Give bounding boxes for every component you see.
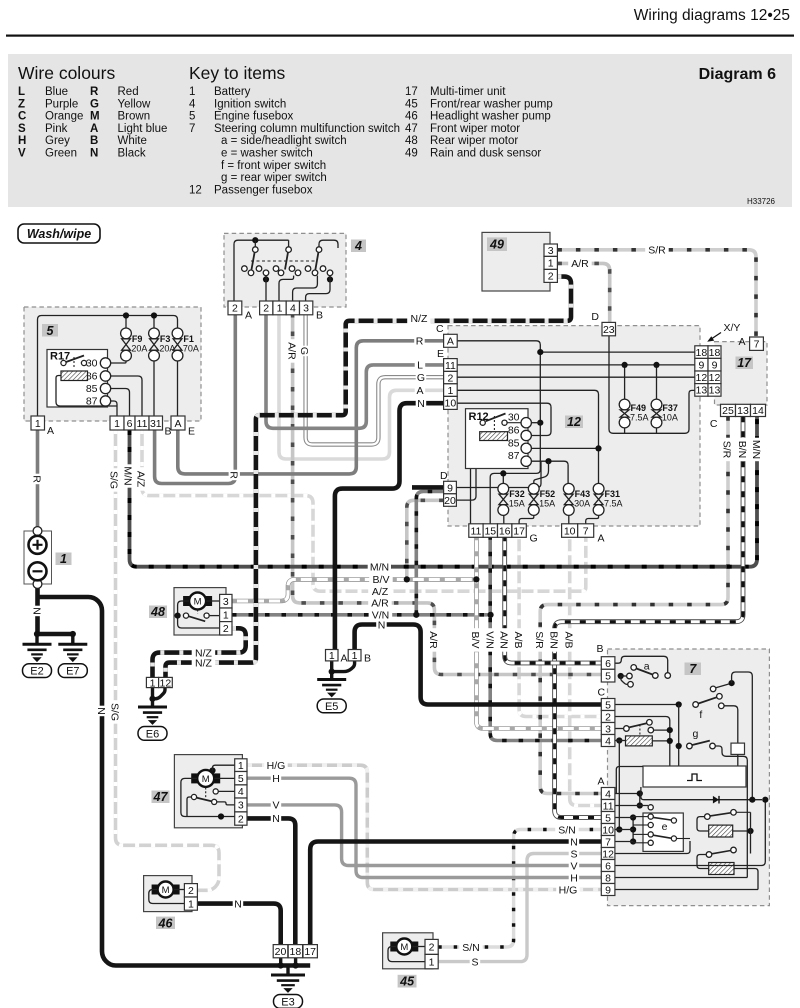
svg-text:Orange: Orange [45, 111, 83, 123]
wire N box18-stub [294, 958, 297, 966]
ground E2 [23, 644, 52, 661]
svg-text:2: 2 [263, 303, 269, 315]
wire 7-smallbox-dn [737, 754, 739, 766]
svg-text:1: 1 [150, 677, 156, 689]
label S/G-2 [110, 700, 121, 724]
wire N/Z 48pin2-to-E6box1 [153, 628, 246, 677]
svg-text:4: 4 [189, 98, 196, 110]
svg-text:N: N [31, 607, 43, 615]
wire A/R ignition4B-to-7B5 [293, 313, 602, 675]
wire 7-a8line [615, 877, 747, 879]
fuse F32 [498, 483, 509, 515]
svg-text:2: 2 [447, 372, 453, 384]
svg-text:A: A [341, 653, 348, 665]
wire N E5A-stem [330, 661, 333, 672]
wire 47-left [181, 778, 235, 816]
wire 12-F32stem [502, 473, 504, 483]
svg-text:B/V: B/V [469, 632, 481, 649]
svg-text:V: V [272, 800, 279, 812]
svg-text:Z: Z [18, 98, 25, 110]
svg-text:4: 4 [354, 239, 362, 253]
svg-text:N: N [90, 148, 98, 160]
wire L ignition2B-to-12pin11 [266, 313, 444, 428]
svg-text:A: A [416, 385, 423, 397]
svg-text:A/R: A/R [427, 631, 439, 649]
svg-text:M: M [202, 774, 210, 785]
svg-text:B/N: B/N [548, 631, 560, 649]
junction jE2 [34, 631, 40, 637]
pin 17-13b [736, 404, 751, 416]
junction j7d [729, 680, 735, 686]
svg-text:E7: E7 [66, 666, 79, 678]
svg-text:10: 10 [564, 525, 576, 537]
svg-text:17: 17 [737, 356, 752, 370]
junction j7g [667, 738, 673, 744]
pin 7-B6 [601, 657, 615, 670]
svg-text:18: 18 [709, 347, 721, 359]
svg-text:E2: E2 [30, 666, 43, 678]
wire 7c3-blade [629, 723, 647, 727]
junction jE3b [293, 962, 299, 968]
pin 17-R18 [708, 346, 721, 359]
svg-text:N: N [272, 813, 280, 825]
wire 7-estub [633, 842, 648, 844]
junction j7i [637, 790, 643, 796]
junction j7e [667, 727, 673, 733]
svg-text:R: R [228, 471, 240, 479]
label N-7 [569, 836, 580, 847]
wire A/R 49pin1-to-23 [557, 263, 609, 322]
svg-text:12: 12 [189, 184, 202, 196]
pin 17-L9 [695, 358, 708, 371]
svg-text:f = front wiper switch: f = front wiper switch [221, 160, 326, 172]
svg-text:N: N [570, 836, 578, 848]
svg-text:7: 7 [189, 123, 195, 135]
svg-text:23: 23 [603, 324, 615, 336]
svg-text:S/R: S/R [533, 631, 545, 649]
wire f9-stub [125, 316, 127, 329]
pin 12-2 [444, 371, 458, 383]
component box battery-body [24, 531, 52, 584]
svg-text:7: 7 [583, 525, 589, 537]
svg-text:6: 6 [127, 418, 133, 430]
resistor 7-res-c4 [626, 736, 653, 746]
wire A/Z fusebox11-to-12A7 [142, 430, 586, 591]
junction j47a [209, 767, 215, 773]
component box rear wiper motor 48 [174, 588, 226, 635]
svg-text:48: 48 [405, 135, 418, 147]
svg-text:8: 8 [605, 872, 611, 884]
wire ign-pivot2 [288, 240, 290, 246]
svg-text:3: 3 [303, 303, 309, 315]
svg-text:S/G: S/G [108, 471, 120, 489]
svg-text:M/N: M/N [370, 562, 389, 574]
svg-text:C: C [598, 687, 606, 699]
pin 47-2 [235, 812, 247, 825]
svg-text:5: 5 [47, 324, 55, 338]
wire 12-coil85 [508, 436, 522, 449]
svg-text:14: 14 [752, 405, 764, 417]
component box 7-pulsebox [643, 766, 746, 787]
pin 12-1 [444, 384, 458, 397]
wire 7f-out [724, 706, 738, 743]
svg-text:2: 2 [548, 271, 554, 283]
svg-text:S/R: S/R [648, 245, 666, 257]
svg-text:a = side/headlight switch: a = side/headlight switch [221, 135, 347, 147]
battery minus [29, 562, 47, 580]
wire 7-res2-r [734, 869, 758, 890]
svg-text:9: 9 [605, 884, 611, 896]
wire 12-F49stem-dn [624, 428, 626, 433]
pin E5-1A [326, 650, 339, 661]
svg-text:A: A [47, 425, 54, 437]
svg-text:E6: E6 [146, 728, 159, 740]
wire ign-c1 [265, 276, 267, 301]
label G-ign [299, 346, 310, 357]
wire 7a-rail [615, 656, 668, 673]
pin 49-3 [544, 244, 557, 256]
svg-text:1: 1 [447, 385, 453, 397]
junction j3 [413, 612, 419, 618]
junction j4b [263, 276, 269, 282]
svg-text:M: M [400, 942, 408, 953]
pin 17-7 [750, 337, 764, 350]
wire B/V 48pin3-trunk [232, 579, 476, 601]
junction j7b [676, 701, 682, 707]
svg-text:47: 47 [153, 790, 169, 804]
label V-47 [271, 799, 282, 810]
svg-text:4: 4 [605, 788, 611, 800]
label E6 [138, 727, 167, 741]
wire 46-left [149, 890, 185, 904]
wire 46-p2 [174, 889, 184, 891]
pin 45-1 [425, 954, 438, 968]
pin E6-1 [146, 677, 158, 687]
pin 12-20 [444, 494, 457, 507]
svg-text:A: A [447, 336, 454, 348]
wire f3-down [153, 361, 155, 416]
pin E3-17 [303, 945, 317, 958]
pin E6-12 [159, 677, 173, 687]
pin 12-11 [444, 359, 458, 372]
svg-text:4: 4 [238, 786, 244, 798]
wire M/N fusebox6-to-17pin14 [130, 416, 758, 567]
pin 46-2 [184, 884, 197, 897]
junction j5b [151, 312, 157, 318]
wire N 12pin10-to-E5A [335, 403, 444, 649]
wire R fusebox-AE-to-12pinA [178, 341, 444, 474]
diode [713, 796, 719, 804]
svg-text:X/Y: X/Y [724, 322, 741, 334]
pin 4-2A [228, 301, 242, 315]
component box rain and dusk sensor 49 [482, 232, 550, 291]
wire 12-F52feed [534, 461, 549, 483]
svg-text:3: 3 [238, 800, 244, 812]
wire 7-c5line [615, 704, 676, 706]
label 17 [736, 357, 754, 370]
wire 45-left [388, 947, 425, 962]
wire A/R 12box20-riser [407, 500, 444, 579]
wire 7-diodeline [641, 787, 762, 800]
svg-text:31: 31 [150, 418, 162, 430]
label 4 [351, 240, 366, 253]
wire f9-to-30 [111, 361, 126, 363]
svg-text:M: M [90, 111, 100, 123]
junction j12d [545, 458, 551, 464]
svg-text:Pink: Pink [45, 123, 68, 135]
pin 7-A6 [601, 860, 615, 872]
svg-text:46: 46 [158, 916, 174, 930]
junction j7p [762, 797, 768, 803]
label A/N-b [499, 628, 510, 652]
svg-text:V/N: V/N [483, 631, 495, 649]
svg-text:7: 7 [689, 662, 697, 676]
svg-text:S/N: S/N [558, 824, 576, 836]
pin 48-3 [220, 594, 232, 608]
svg-text:A: A [245, 310, 252, 322]
svg-text:20: 20 [275, 946, 287, 958]
pin 7-C2 [601, 711, 615, 723]
pin 5-1A [31, 416, 45, 430]
svg-text:3: 3 [548, 245, 554, 257]
svg-text:N/Z: N/Z [411, 313, 429, 325]
pin 47-5 [235, 772, 247, 785]
svg-text:B/V: B/V [373, 574, 390, 586]
wire 12-pin1net [457, 390, 599, 484]
label BV-t [369, 574, 393, 585]
pin E3-18 [288, 945, 302, 958]
label NZ-top [407, 313, 431, 324]
svg-text:12: 12 [709, 372, 721, 384]
junction j7c [676, 743, 682, 749]
junction j7n [747, 828, 753, 834]
wire 7-a4line2 [613, 794, 640, 806]
label AZ-t [368, 586, 392, 597]
svg-text:7.5A: 7.5A [630, 413, 649, 423]
pin 17-25 [721, 404, 736, 416]
wire 7-estub [633, 816, 648, 818]
wire 12-line12 [457, 376, 695, 378]
svg-text:C: C [436, 323, 444, 335]
wire 7-a7line [615, 841, 633, 843]
wire 7-estub [633, 824, 648, 826]
wire A ignition1B-to-12pin1 [279, 313, 444, 459]
label HG-47 [264, 760, 288, 771]
wire 7-res2-blade [712, 851, 731, 854]
pin 7-C3 [601, 723, 615, 735]
junction j7f [616, 737, 622, 743]
svg-text:Key to items: Key to items [189, 63, 286, 83]
pin 17-14 [751, 404, 766, 416]
wire 7-a11line [615, 805, 648, 807]
label MN-t [368, 561, 392, 572]
wire ign-rail2 [319, 240, 338, 249]
label 46 [156, 917, 175, 929]
svg-text:2: 2 [223, 623, 229, 635]
svg-text:f: f [699, 709, 702, 721]
battery plus [29, 536, 47, 554]
svg-text:47: 47 [405, 123, 418, 135]
svg-text:70A: 70A [183, 344, 199, 354]
fuse F43 [563, 483, 574, 515]
wire 7-res1-blade [710, 813, 731, 816]
svg-text:46: 46 [405, 111, 418, 123]
wire ign-p3b [306, 276, 330, 301]
svg-text:e = washer switch: e = washer switch [221, 148, 313, 160]
pin 7-A9 [601, 884, 615, 896]
Wash/wipe badge [18, 224, 100, 243]
pin 17-R13 [708, 384, 721, 397]
label SN-45 [459, 941, 483, 952]
svg-text:H: H [570, 872, 578, 884]
label G-12 [416, 372, 427, 383]
svg-text:L: L [417, 360, 423, 372]
svg-text:6: 6 [605, 860, 611, 872]
wire A/B 12box17-to-7C2 [519, 535, 601, 716]
svg-text:25: 25 [722, 405, 734, 417]
wire 7-res1-l [697, 817, 709, 831]
wire 47-p4 [218, 790, 234, 792]
pin 5-AE [171, 416, 185, 430]
svg-text:5: 5 [189, 111, 195, 123]
wire N E6-stem1 [151, 688, 154, 699]
svg-text:D: D [440, 470, 448, 482]
wire S/R 49pin3-to-17pin7 [557, 250, 756, 338]
wire 7-res1-vert [750, 812, 752, 853]
svg-text:A: A [738, 336, 745, 348]
junction j12b [537, 420, 543, 426]
pin 46-1 [184, 897, 197, 910]
wire 7-a12stub [677, 838, 690, 840]
wire F52-dn [519, 515, 534, 523]
wire f1-down [177, 361, 179, 416]
label L-12 [415, 359, 426, 370]
svg-text:1: 1 [35, 418, 41, 430]
label E2 [23, 664, 52, 678]
svg-text:R: R [90, 86, 99, 98]
svg-text:1: 1 [223, 610, 229, 622]
label R-ign [229, 470, 240, 481]
resistor R12coil [480, 432, 508, 441]
svg-text:H33726: H33726 [747, 197, 776, 206]
svg-text:45: 45 [405, 98, 418, 110]
svg-text:16: 16 [499, 525, 511, 537]
svg-text:85: 85 [86, 383, 98, 395]
svg-text:N: N [95, 707, 107, 715]
wire 7-c4down [618, 741, 620, 830]
svg-text:86: 86 [508, 425, 520, 437]
wire 7f-up [732, 672, 753, 800]
wire 7-c5vert [678, 705, 680, 767]
svg-text:13: 13 [709, 385, 721, 397]
svg-text:Yellow: Yellow [118, 98, 152, 110]
svg-text:5: 5 [605, 699, 611, 711]
svg-text:1: 1 [60, 552, 67, 566]
svg-text:A: A [598, 776, 605, 788]
svg-text:10: 10 [602, 824, 614, 836]
wire S/R 17pin25-to-7A4 [540, 416, 728, 793]
wire A/B 12box10-to-7A11 [570, 535, 602, 805]
motor 46M [152, 885, 159, 895]
junction j12a [537, 349, 543, 355]
pin 12-a7 [578, 524, 594, 538]
svg-text:17: 17 [304, 946, 316, 958]
svg-text:1: 1 [114, 418, 120, 430]
svg-text:B/N: B/N [736, 441, 748, 459]
svg-text:Diagram 6: Diagram 6 [699, 66, 776, 83]
svg-text:M: M [194, 596, 202, 607]
svg-text:Engine fusebox: Engine fusebox [214, 111, 294, 123]
wire 12-Nnet [457, 403, 551, 435]
ground E3 [271, 975, 305, 992]
wire R battery-to-fusebox1A [36, 430, 40, 528]
svg-text:1: 1 [548, 258, 554, 270]
junction j7a [618, 673, 624, 679]
wire H 47pin5-to-7A8 [247, 778, 601, 877]
component box ignition switch 4 [224, 233, 346, 307]
svg-text:H/G: H/G [267, 760, 286, 772]
svg-text:Front/rear washer pump: Front/rear washer pump [430, 98, 553, 110]
wire S/G fusebox1-to-46 [116, 430, 220, 890]
svg-text:N/Z: N/Z [195, 657, 213, 669]
resistor R17coil [61, 371, 88, 381]
wire blade1 [252, 252, 255, 269]
wire S/N 45pin2-to-7A10 [438, 830, 601, 948]
pin 12-A [444, 334, 458, 347]
svg-text:S/G: S/G [109, 703, 121, 721]
svg-text:2: 2 [429, 942, 435, 954]
wire 7g-blade [692, 741, 710, 745]
svg-text:2: 2 [188, 885, 194, 897]
junction jE3a [278, 962, 284, 968]
wire R fusebox31-to-ignition2A [155, 313, 236, 484]
svg-text:Steering column multifunction: Steering column multifunction switch [214, 123, 400, 135]
junction j7m [630, 838, 636, 844]
svg-text:N: N [417, 398, 425, 410]
pin 12-10 [444, 396, 458, 409]
wire 7-a4line [615, 767, 643, 794]
label S/G-1 [109, 468, 120, 492]
svg-text:M: M [162, 885, 170, 896]
svg-text:Wiring diagrams 12•25: Wiring diagrams 12•25 [634, 7, 790, 24]
svg-text:18: 18 [290, 946, 302, 958]
junction j12f [622, 362, 628, 368]
wire 12-87net [531, 461, 568, 484]
pin 17-L13 [695, 384, 708, 397]
pin 12-g11 [469, 524, 483, 538]
wire r17-87 [111, 401, 118, 416]
label N-46 [233, 898, 244, 909]
wire V/N 48pin1-to-12box9 [232, 613, 491, 617]
wire 7-c3line [615, 728, 624, 730]
label H-7 [569, 872, 580, 883]
svg-text:17: 17 [405, 86, 418, 98]
pin 7-C4 [601, 735, 615, 747]
wire N box17-to-7A7 [310, 842, 601, 945]
label A/Z-1 [136, 467, 147, 491]
pin 7-A5 [601, 812, 615, 824]
junction jE6 [149, 696, 155, 702]
wire 12-30stub [531, 422, 540, 424]
junction j47b [218, 813, 224, 819]
wire 7c3-out [654, 729, 670, 731]
label SN-7 [555, 824, 579, 835]
wire 7-c2line [615, 717, 670, 767]
wire 48-p3 [206, 600, 219, 602]
component box R12 [466, 409, 529, 469]
label 45 [398, 975, 417, 988]
wire ign-p4b [293, 276, 318, 301]
